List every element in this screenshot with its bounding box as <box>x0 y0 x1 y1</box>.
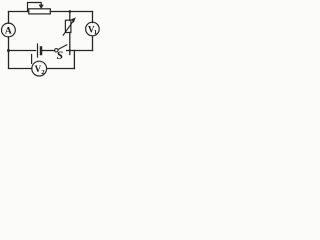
svg-text:A: A <box>5 27 12 37</box>
svg-text:2: 2 <box>41 69 44 76</box>
svg-text:1: 1 <box>94 29 97 36</box>
svg-text:S: S <box>57 50 63 62</box>
